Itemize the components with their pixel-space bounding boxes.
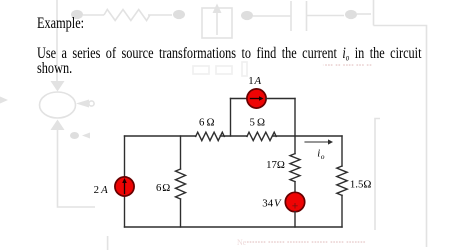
wire: right branch bottom lead bbox=[341, 195, 343, 227]
resistor 6ohm (shunt, vertical) bbox=[176, 169, 186, 199]
svg-text:5 Ω: 5 Ω bbox=[250, 117, 266, 129]
wire: 1A loop top left segment bbox=[231, 98, 248, 100]
watermark resistor bbox=[104, 10, 150, 21]
heading "Example:" bbox=[37, 16, 84, 32]
svg-text:1.5Ω: 1.5Ω bbox=[350, 178, 372, 190]
svg-text:17Ω: 17Ω bbox=[266, 159, 285, 171]
svg-text:34 V: 34 V bbox=[262, 198, 282, 210]
wire: 1A loop top right segment bbox=[266, 98, 295, 100]
current source 1A (circle with right arrow) bbox=[247, 89, 266, 108]
wire: top rail right of 5ohm to right corner bbox=[273, 135, 342, 137]
wire: bottom rail bbox=[125, 226, 343, 228]
wire: 1A loop left vertical bbox=[230, 99, 232, 137]
svg-text:io: io bbox=[317, 147, 325, 161]
svg-text:1 A: 1 A bbox=[248, 75, 261, 87]
wire: between 17ohm and 34V source bbox=[294, 182, 296, 193]
resistor 6ohm (series, horizontal) bbox=[196, 132, 225, 140]
wire: top rail between 6ohm and 5ohm bbox=[220, 135, 247, 137]
faint pink watermark text bbox=[237, 61, 372, 247]
current arrow i_o bbox=[305, 139, 333, 144]
paragraph line 1 bbox=[37, 46, 422, 62]
wire: 6ohm shunt branch bottom lead bbox=[180, 199, 182, 227]
wire: 6ohm shunt branch top lead bbox=[180, 136, 182, 169]
faint bottom-left vertical bbox=[107, 236, 109, 250]
wire: top rail left of 6ohm resistor bbox=[125, 135, 196, 137]
wire: left branch (bottom segment below 2A source) bbox=[124, 196, 126, 227]
current source 2A (circle with up arrow) bbox=[115, 177, 134, 196]
top-left vertical wire bbox=[56, 0, 58, 82]
wire: right branch top lead bbox=[341, 136, 343, 166]
faint grey marks under text bbox=[193, 66, 209, 74]
wire: 34V bottom lead bbox=[294, 212, 296, 227]
wire: left branch (top segment above 2A source) bbox=[124, 136, 126, 177]
watermark capacitor bbox=[290, 1, 292, 31]
svg-text:6 Ω: 6 Ω bbox=[156, 182, 170, 194]
resistor 17ohm (vertical) bbox=[290, 154, 300, 182]
resistor 1.5ohm (vertical) bbox=[337, 166, 347, 195]
voltage source 34V (circle) bbox=[285, 192, 304, 211]
wire: 1A loop right vertical bbox=[294, 99, 296, 137]
watermark left source circle bbox=[40, 92, 76, 118]
svg-text:2 A: 2 A bbox=[94, 184, 109, 196]
watermark source box with up arrow bbox=[202, 8, 232, 38]
paragraph line 2 bbox=[37, 61, 72, 77]
watermark right verticals bbox=[373, 0, 375, 26]
resistor 5ohm (series, horizontal) bbox=[247, 132, 276, 140]
wire: 17ohm branch top lead bbox=[294, 136, 296, 154]
dot terminal bbox=[71, 10, 83, 19]
svg-text:6 Ω: 6 Ω bbox=[199, 117, 215, 129]
